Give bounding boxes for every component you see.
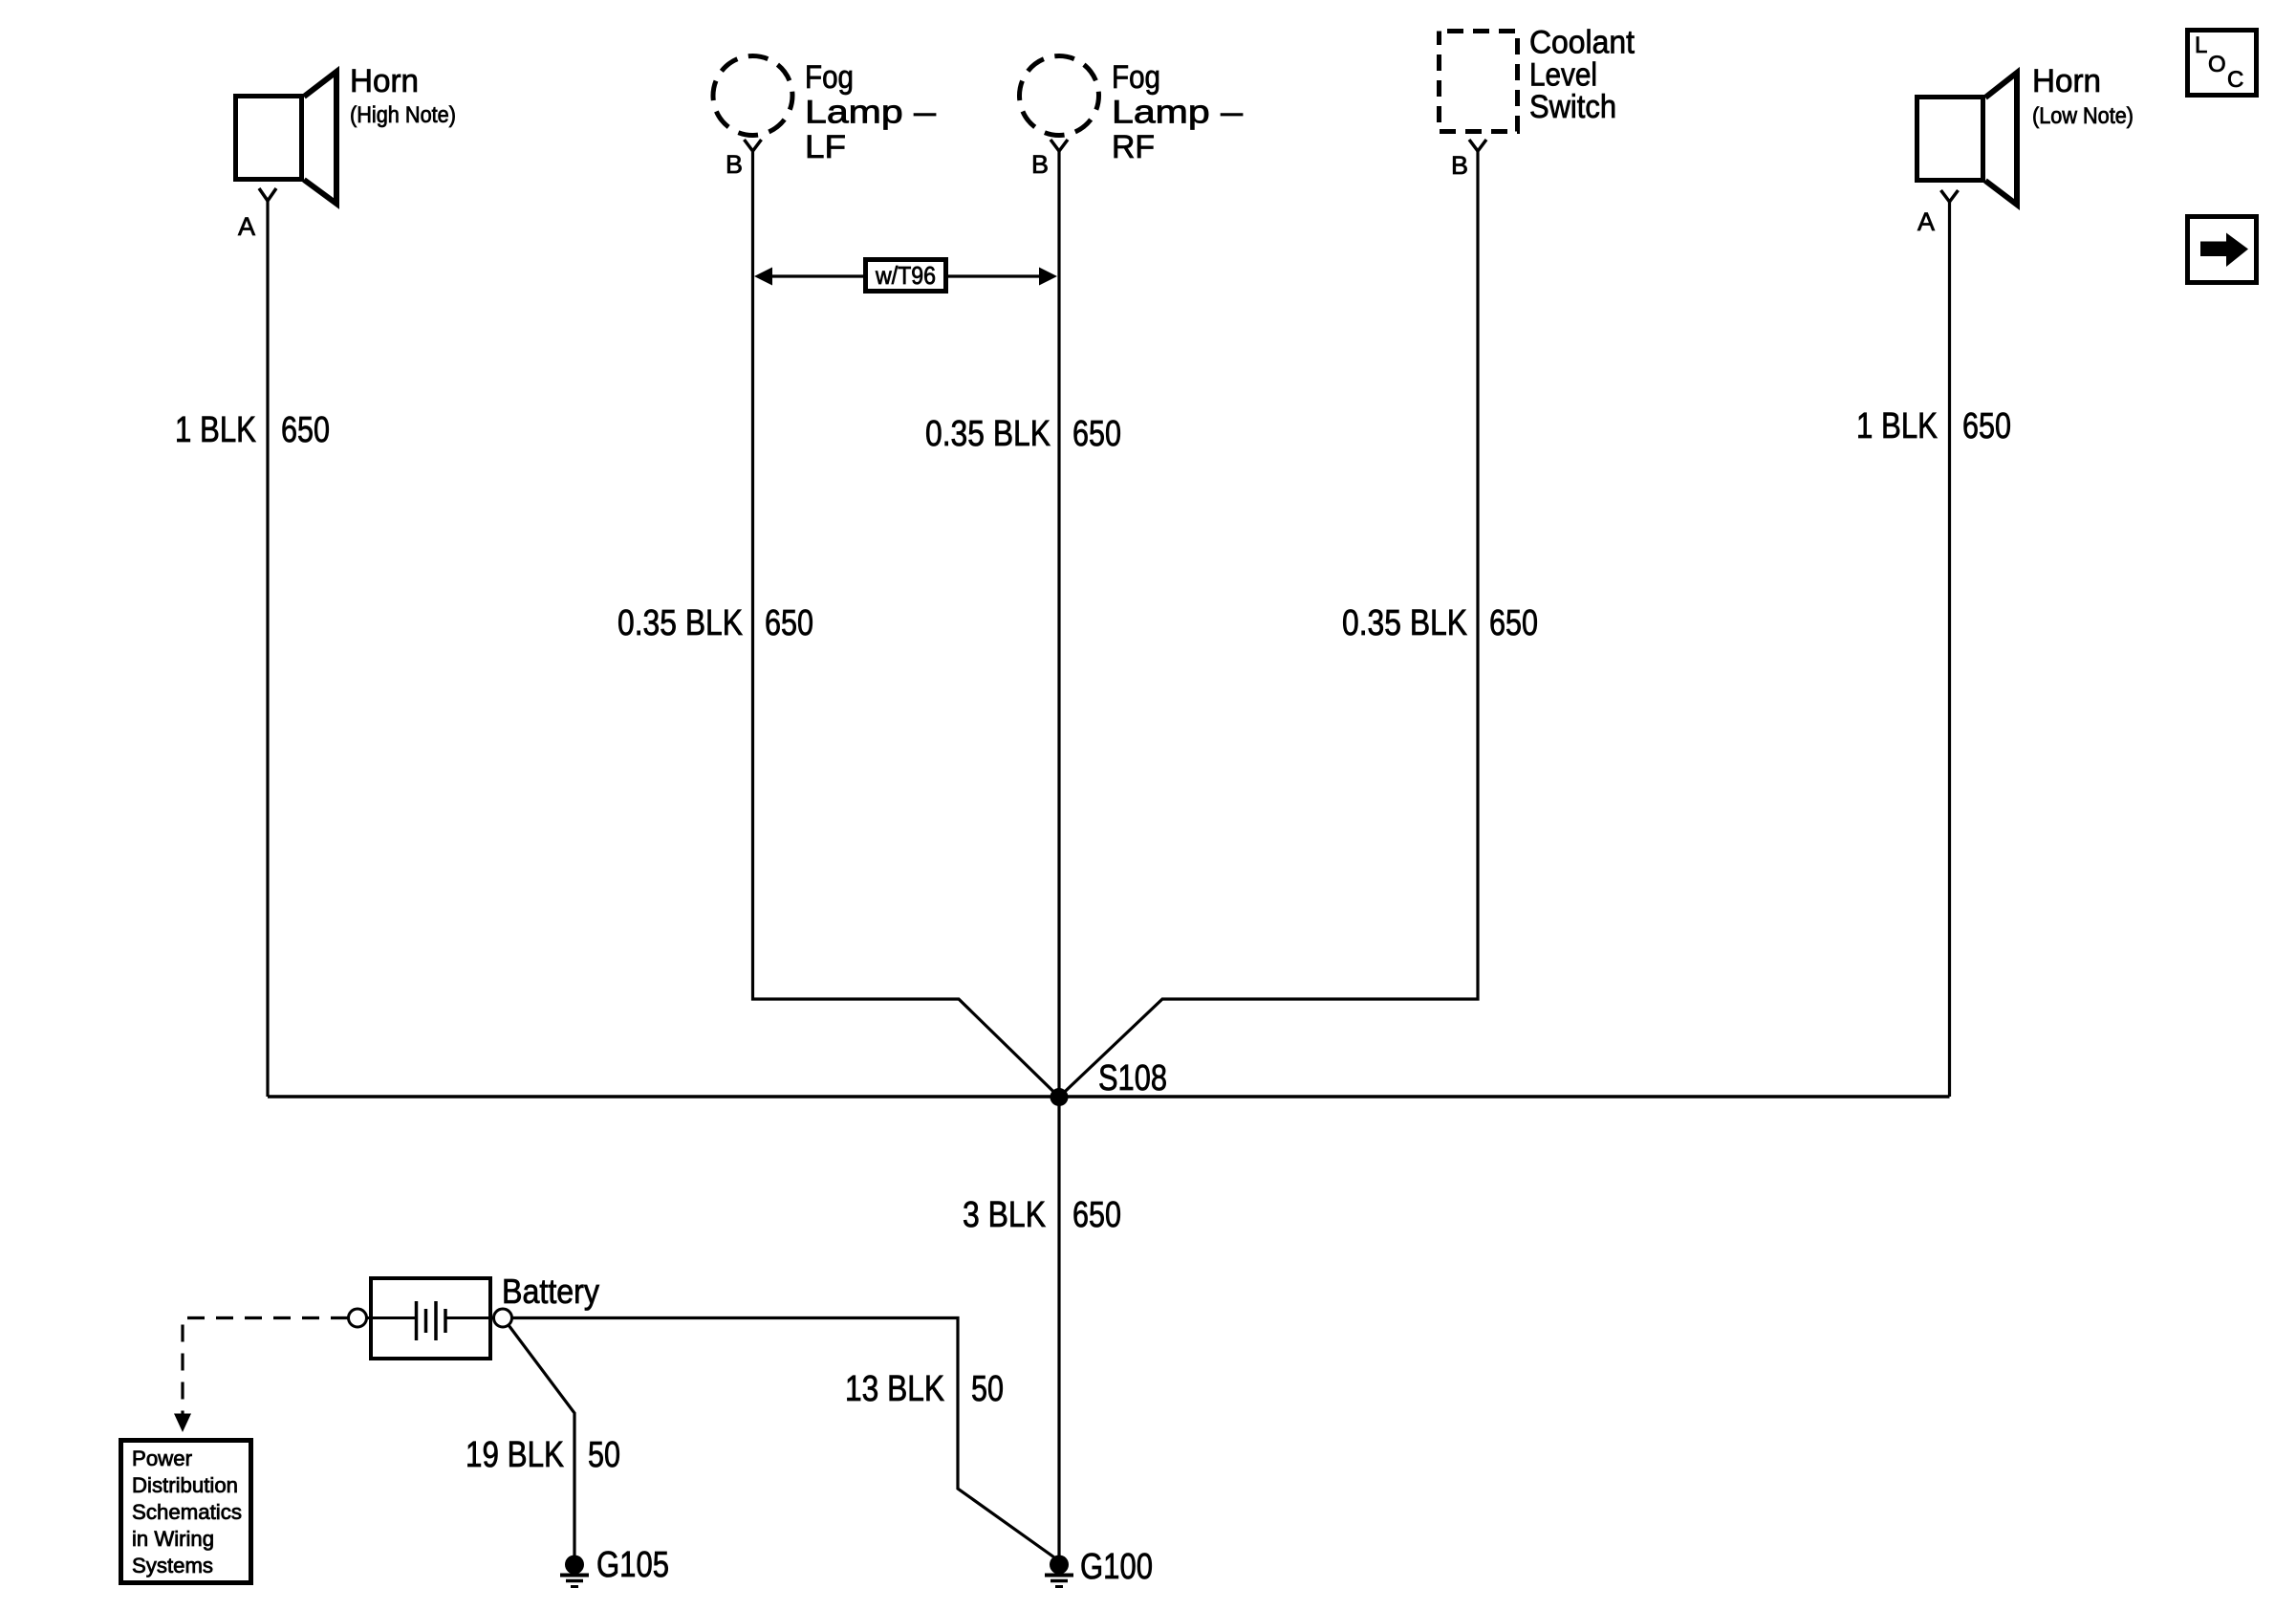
svg-text:Power: Power xyxy=(132,1447,192,1470)
power distribution reference box xyxy=(121,1441,251,1583)
svg-text:650: 650 xyxy=(1072,1195,1121,1235)
svg-text:A: A xyxy=(238,212,255,241)
svg-text:O: O xyxy=(2208,52,2226,77)
wire label 0.35 BLK 650 (LF) xyxy=(617,603,813,643)
horn (low note) right speaker symbol xyxy=(1917,73,2018,205)
svg-text:A: A xyxy=(1917,207,1935,236)
svg-text:0.35 BLK: 0.35 BLK xyxy=(1342,603,1467,643)
svg-text:650: 650 xyxy=(1072,414,1121,454)
wire: fog lamp LF down and over to S108 xyxy=(753,151,1060,1098)
wire label 0.35 BLK 650 (coolant) xyxy=(1342,603,1538,643)
ground G100 xyxy=(1045,1556,1073,1587)
svg-text:w/T96: w/T96 xyxy=(875,261,936,290)
svg-text:LF: LF xyxy=(805,129,846,165)
svg-text:in Wiring: in Wiring xyxy=(132,1527,214,1551)
wire label 19 BLK 50 xyxy=(466,1435,620,1475)
wire: battery to G100 xyxy=(512,1318,1055,1558)
svg-text:Horn: Horn xyxy=(2032,63,2101,99)
svg-text:Level: Level xyxy=(1529,57,1597,94)
svg-text:Horn: Horn xyxy=(350,63,419,99)
main horizontal ground wire xyxy=(268,1095,1950,1099)
svg-text:B: B xyxy=(1451,151,1468,180)
svg-text:G100: G100 xyxy=(1080,1547,1153,1587)
horn (low note) label xyxy=(2032,63,2134,129)
svg-text:Schematics: Schematics xyxy=(132,1500,242,1524)
fog lamp RF label xyxy=(1112,59,1243,165)
splice S108 xyxy=(1051,1088,1069,1106)
svg-text:Fog: Fog xyxy=(805,59,854,96)
battery cell plates xyxy=(367,1301,495,1340)
horn (high note) label xyxy=(350,63,456,128)
svg-text:Battery: Battery xyxy=(502,1272,599,1311)
svg-text:B: B xyxy=(1031,150,1049,179)
svg-text:0.35 BLK: 0.35 BLK xyxy=(617,603,743,643)
svg-text:Systems: Systems xyxy=(132,1554,213,1577)
svg-text:B: B xyxy=(726,150,743,179)
svg-text:1 BLK: 1 BLK xyxy=(1856,406,1938,446)
svg-text:19 BLK: 19 BLK xyxy=(466,1435,564,1475)
wire: battery to G105 xyxy=(509,1325,574,1556)
wire: right horn A down to main ground line xyxy=(1948,202,1951,1097)
svg-text:C: C xyxy=(2227,67,2243,93)
connector pin A (left horn) xyxy=(259,188,276,201)
svg-text:650: 650 xyxy=(281,410,330,450)
svg-text:Distribution: Distribution xyxy=(132,1473,238,1497)
next-page arrow box xyxy=(2188,217,2257,283)
w/T96 box xyxy=(866,260,946,292)
svg-text:1 BLK: 1 BLK xyxy=(175,410,256,450)
connector pin B (coolant level switch) xyxy=(1469,140,1486,151)
svg-text:Fog: Fog xyxy=(1112,59,1160,96)
connector pin B (fog lamp RF) xyxy=(1051,140,1068,151)
svg-text:(High Note): (High Note) xyxy=(350,102,456,128)
svg-text:50: 50 xyxy=(971,1369,1004,1409)
wire: coolant switch down and over to S108 xyxy=(1059,151,1478,1098)
wire label 0.35 BLK 650 (RF) xyxy=(925,414,1121,454)
horn (high note) left speaker symbol xyxy=(236,72,337,204)
wire label 13 BLK 50 xyxy=(845,1369,1004,1409)
dashed reference wire from battery to power distribution box xyxy=(183,1318,348,1416)
svg-text:0.35 BLK: 0.35 BLK xyxy=(925,414,1051,454)
svg-text:G105: G105 xyxy=(596,1545,669,1585)
LOC reference box xyxy=(2188,31,2257,96)
svg-text:Coolant: Coolant xyxy=(1529,25,1635,61)
svg-text:Switch: Switch xyxy=(1529,89,1616,125)
coolant level switch label xyxy=(1529,25,1635,126)
wire label 3 BLK 650 xyxy=(963,1195,1121,1235)
svg-text:S108: S108 xyxy=(1098,1058,1167,1099)
svg-text:50: 50 xyxy=(588,1435,620,1475)
svg-text:13 BLK: 13 BLK xyxy=(845,1369,944,1409)
ground G105 xyxy=(560,1556,589,1587)
connector pin B (fog lamp LF) xyxy=(745,140,762,151)
svg-text:650: 650 xyxy=(1962,406,2011,446)
wire: fog lamp RF straight down through S108 to G100 xyxy=(1057,151,1060,1556)
wire: left horn A down to main ground line xyxy=(266,201,269,1097)
svg-text:3 BLK: 3 BLK xyxy=(963,1195,1046,1235)
coolant level switch dashed box xyxy=(1440,32,1518,132)
w/T96 range arrow xyxy=(754,268,1057,286)
svg-text:650: 650 xyxy=(1489,603,1538,643)
svg-text:(Low Note): (Low Note) xyxy=(2032,103,2134,129)
svg-text:Lamp –: Lamp – xyxy=(805,95,936,131)
wire label 1 BLK 650 (left) xyxy=(175,410,330,450)
connector pin A (right horn) xyxy=(1941,190,1959,202)
fog lamp LF label xyxy=(805,59,936,165)
battery box xyxy=(371,1278,490,1359)
fog lamp LF dashed circle xyxy=(713,56,792,136)
svg-text:L: L xyxy=(2195,33,2207,58)
fog lamp RF dashed circle xyxy=(1020,56,1099,136)
wire label 1 BLK 650 (right) xyxy=(1856,406,2011,446)
svg-text:RF: RF xyxy=(1112,129,1155,165)
battery terminals xyxy=(349,1309,367,1327)
svg-text:Lamp –: Lamp – xyxy=(1112,95,1243,131)
svg-text:650: 650 xyxy=(765,603,813,643)
